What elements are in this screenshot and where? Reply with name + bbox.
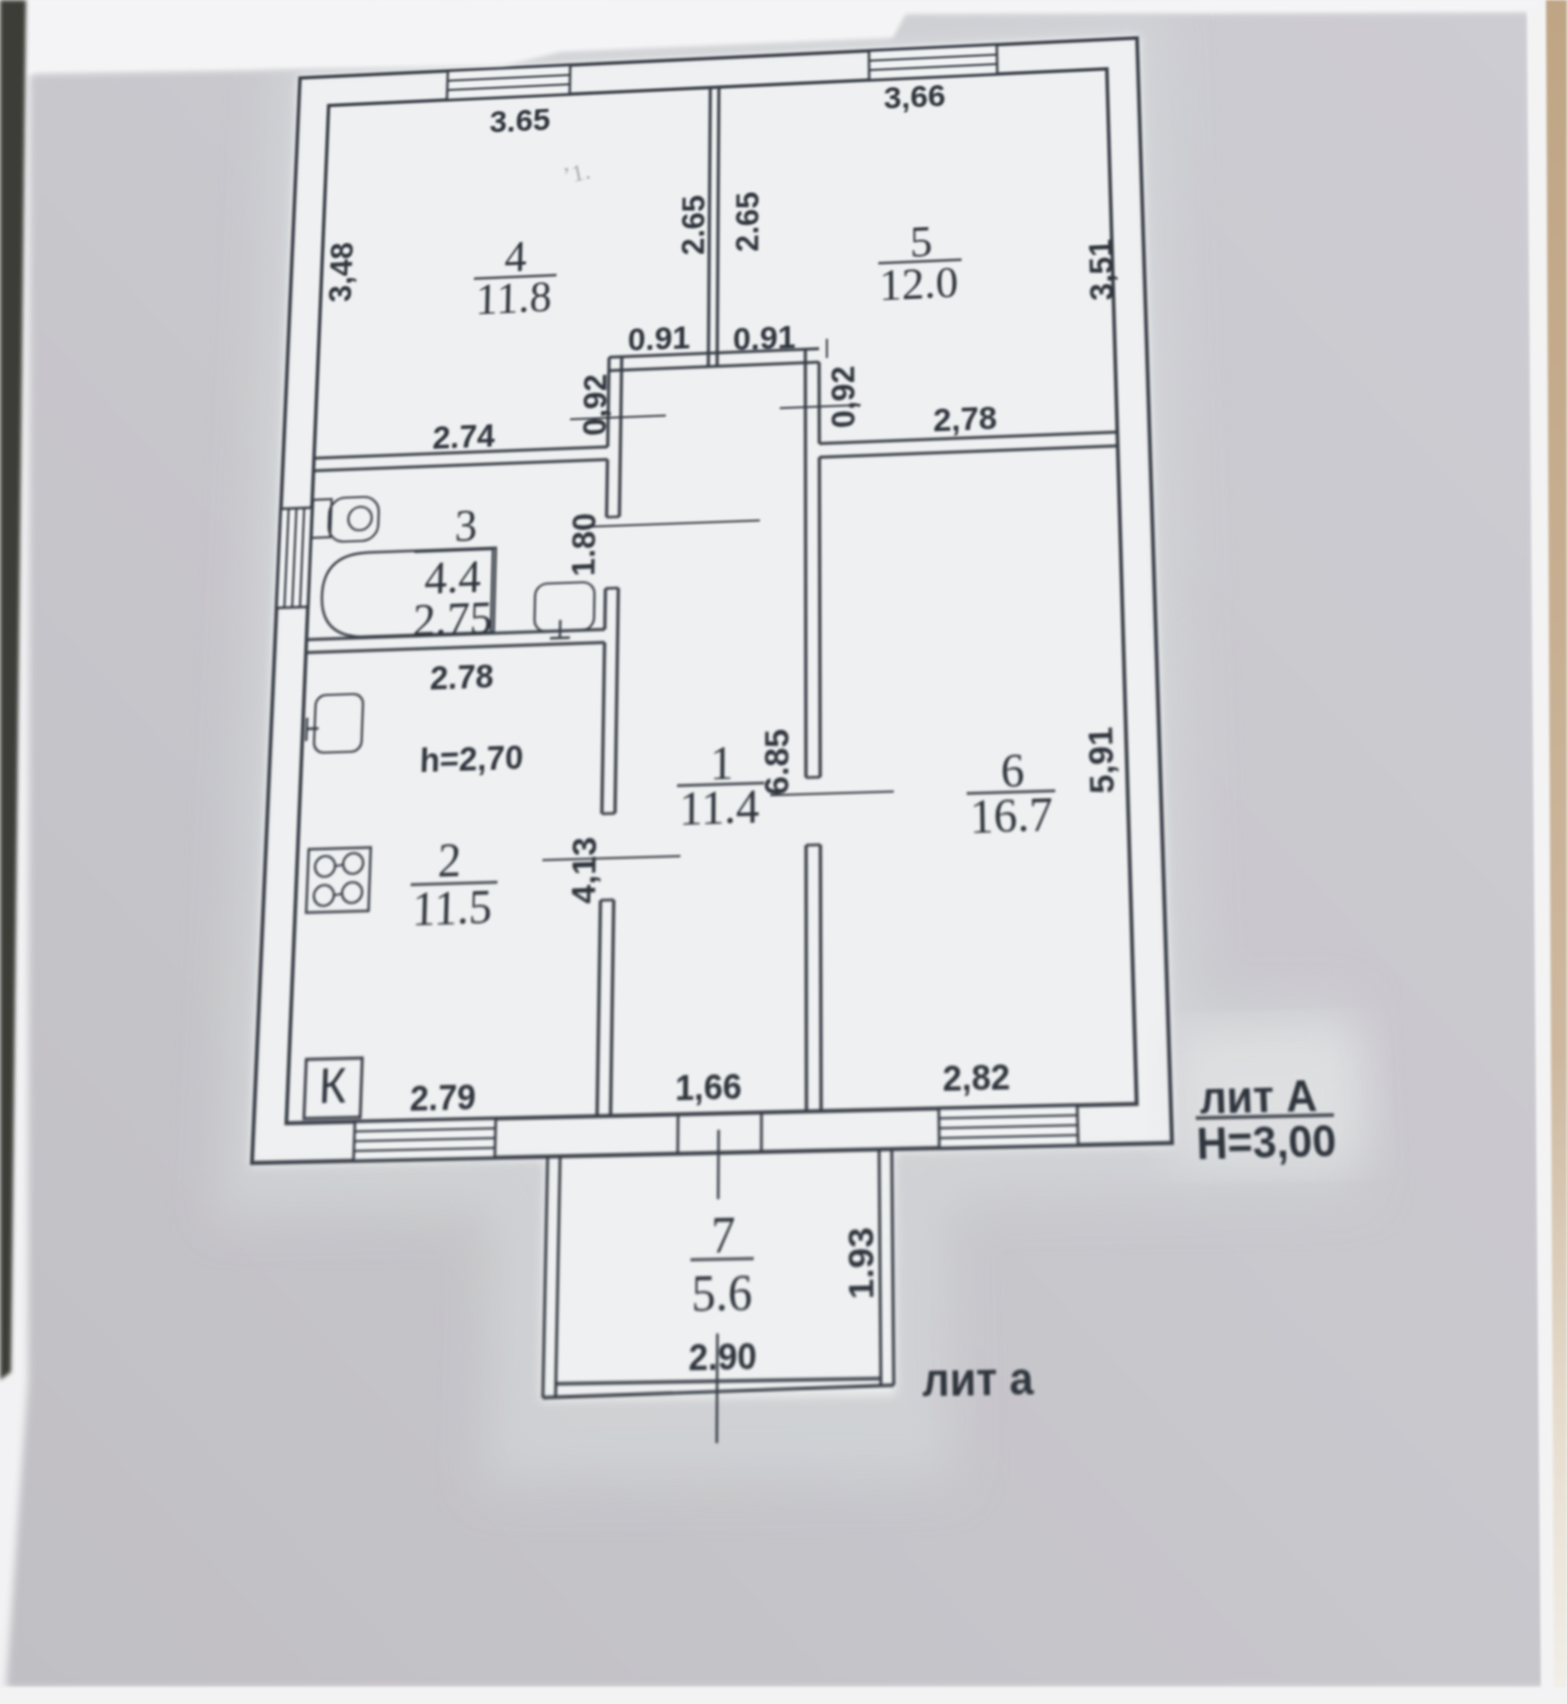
wall room5 / room6 [819,432,1117,443]
floor plan (perspective mapped) [128,0,1474,1573]
witness line 2.90 porch [717,1130,720,1199]
kitchen sink [314,694,364,753]
window room5 top [869,45,997,80]
exterior wall inner outline [286,69,1136,1123]
stove [306,847,371,912]
dark strip left edge [0,0,26,1380]
washbasin [534,582,594,632]
witness line 4,13 [542,856,680,860]
hall right wall [804,363,808,778]
wall room4 / bathroom [314,447,608,458]
witness line 6.85 [770,792,893,796]
hall left wall [608,357,609,447]
bathtub right edge / room3 label box [491,549,493,632]
toilet [312,499,332,538]
building interior paper [239,36,1182,1405]
witness line 1.80 [575,520,760,527]
wall bathroom / kitchen [306,629,604,639]
tan strip right edge [1546,0,1567,1704]
window kitchen bottom [354,1118,496,1160]
closet top wall [609,349,819,358]
porch door jambs in bottom wall [676,1114,679,1153]
top white band [0,0,1567,76]
wall between room4 and room5 [708,88,710,367]
bathtub [320,548,496,638]
kitchen K marker box [304,1058,362,1119]
porch right wall [879,1149,881,1385]
porch bottom wall [543,1385,894,1397]
exterior wall outer outline [252,38,1172,1163]
lit A underline [1196,1115,1334,1118]
bottom white band [0,1687,1567,1704]
window room4 top [447,65,570,100]
witness line 0,92 left [570,416,666,420]
window bathroom left wall [277,508,312,608]
porch left wall [543,1157,548,1398]
right white band [1527,0,1556,1704]
room fraction bars [474,275,557,279]
paper halo around plan [204,1,1376,1490]
0.91 dim end tick [826,339,828,358]
witness line 0,92 right [780,405,861,408]
window room6 bottom [939,1105,1078,1148]
